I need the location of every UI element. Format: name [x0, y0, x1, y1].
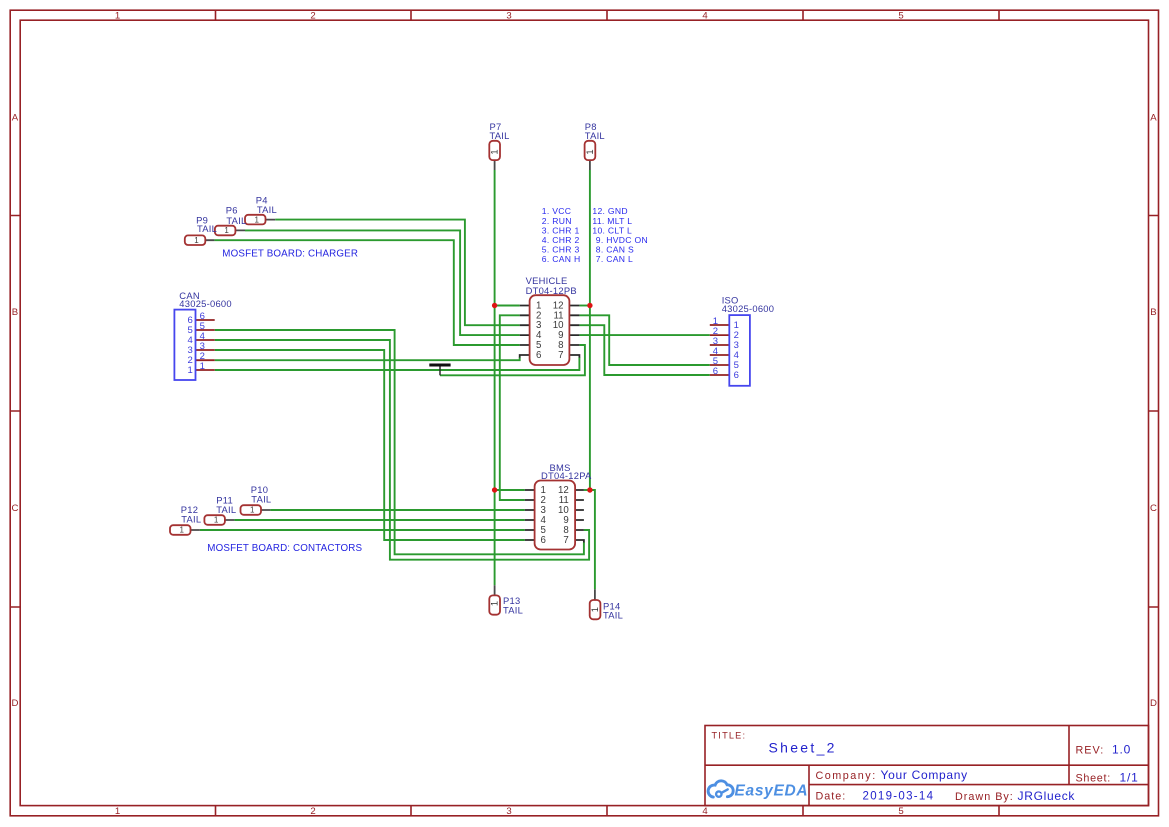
svg-text:Drawn By:: Drawn By: [955, 791, 1014, 803]
svg-text:1: 1 [224, 226, 229, 235]
svg-text:7. CAN L: 7. CAN L [596, 254, 633, 264]
svg-text:4. CHR 2: 4. CHR 2 [542, 235, 580, 245]
svg-text:TAIL: TAIL [216, 504, 236, 515]
svg-text:1: 1 [590, 607, 600, 612]
svg-text:TAIL: TAIL [251, 494, 271, 505]
svg-text:1: 1 [194, 236, 199, 245]
svg-text:6: 6 [541, 535, 546, 546]
svg-text:TAIL: TAIL [503, 604, 523, 615]
svg-text:11. MLT L: 11. MLT L [592, 216, 632, 226]
svg-text:2019-03-14: 2019-03-14 [863, 791, 935, 803]
svg-text:Company:: Company: [816, 770, 877, 782]
svg-text:1. VCC: 1. VCC [542, 206, 572, 216]
svg-text:1: 1 [179, 526, 184, 535]
svg-text:TITLE:: TITLE: [712, 730, 747, 740]
svg-text:5: 5 [898, 10, 903, 21]
svg-text:6: 6 [536, 350, 541, 361]
svg-text:10. CLT L: 10. CLT L [592, 225, 632, 235]
svg-text:8. CAN S: 8. CAN S [596, 245, 634, 255]
svg-text:1: 1 [585, 149, 595, 154]
svg-text:TAIL: TAIL [603, 609, 623, 620]
svg-text:5. CHR 3: 5. CHR 3 [542, 245, 580, 255]
svg-text:3: 3 [506, 10, 511, 21]
svg-text:MOSFET BOARD: CONTACTORS: MOSFET BOARD: CONTACTORS [207, 543, 362, 554]
svg-text:6: 6 [713, 366, 718, 377]
svg-text:1: 1 [200, 361, 205, 372]
svg-text:1: 1 [490, 601, 500, 606]
svg-text:MOSFET BOARD: CHARGER: MOSFET BOARD: CHARGER [222, 248, 358, 259]
svg-text:7: 7 [563, 535, 568, 546]
svg-text:JRGlueck: JRGlueck [1018, 789, 1076, 803]
svg-text:2: 2 [310, 806, 315, 817]
svg-text:1: 1 [115, 10, 120, 21]
svg-text:6: 6 [734, 370, 739, 381]
svg-text:7: 7 [558, 350, 563, 361]
svg-text:B: B [1150, 307, 1156, 318]
svg-text:Your Company: Your Company [881, 768, 968, 782]
svg-text:1: 1 [254, 215, 259, 224]
svg-text:2: 2 [310, 10, 315, 21]
svg-text:Sheet_2: Sheet_2 [769, 740, 837, 756]
svg-text:1: 1 [490, 149, 500, 154]
svg-text:DT04-12PB: DT04-12PB [526, 285, 577, 296]
svg-text:9. HVDC ON: 9. HVDC ON [596, 235, 648, 245]
svg-text:12. GND: 12. GND [592, 206, 628, 216]
svg-text:TAIL: TAIL [226, 215, 246, 226]
svg-text:4: 4 [702, 806, 708, 817]
svg-text:TAIL: TAIL [181, 513, 201, 524]
svg-text:DT04-12PA: DT04-12PA [541, 470, 592, 481]
svg-text:43025-0600: 43025-0600 [179, 298, 232, 309]
svg-text:TAIL: TAIL [585, 130, 605, 141]
svg-text:Date:: Date: [816, 791, 847, 803]
svg-text:1: 1 [214, 516, 219, 525]
svg-text:4: 4 [702, 10, 708, 21]
svg-text:D: D [12, 698, 19, 709]
svg-text:1: 1 [115, 806, 120, 817]
svg-text:REV:: REV: [1076, 744, 1105, 756]
svg-text:EasyEDA: EasyEDA [735, 782, 809, 799]
svg-text:1/1: 1/1 [1120, 770, 1139, 784]
svg-text:TAIL: TAIL [197, 223, 217, 234]
svg-text:5: 5 [898, 806, 903, 817]
svg-text:Sheet:: Sheet: [1076, 772, 1111, 784]
svg-text:1: 1 [250, 506, 255, 515]
svg-text:B: B [12, 307, 18, 318]
svg-text:6. CAN H: 6. CAN H [542, 254, 581, 264]
svg-text:P6: P6 [226, 205, 238, 216]
svg-text:A: A [1150, 113, 1157, 124]
svg-text:C: C [12, 503, 19, 514]
svg-text:1: 1 [188, 365, 193, 376]
svg-text:1.0: 1.0 [1112, 742, 1131, 756]
svg-text:D: D [1150, 698, 1157, 709]
svg-text:3: 3 [506, 806, 511, 817]
svg-text:A: A [12, 113, 19, 124]
svg-text:TAIL: TAIL [257, 204, 277, 215]
svg-text:2. RUN: 2. RUN [542, 216, 572, 226]
svg-text:3. CHR 1: 3. CHR 1 [542, 225, 580, 235]
svg-text:TAIL: TAIL [490, 130, 510, 141]
svg-text:C: C [1150, 503, 1157, 514]
svg-text:43025-0600: 43025-0600 [722, 303, 775, 314]
